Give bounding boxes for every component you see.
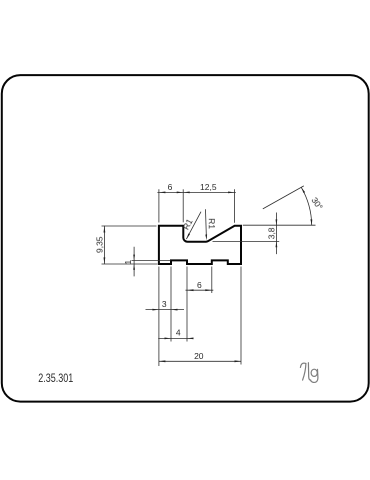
svg-text:9,35: 9,35 — [95, 236, 105, 253]
radius leader R1 slant base — [205, 209, 217, 240]
dimension 4 bottom — [158, 327, 193, 339]
dimension 6 bottom — [186, 267, 214, 342]
svg-text:4: 4 — [176, 327, 181, 337]
svg-text:6: 6 — [197, 280, 202, 290]
profile outline — [159, 226, 241, 264]
svg-text:2.35.301: 2.35.301 — [38, 372, 73, 386]
svg-text:20: 20 — [194, 351, 204, 361]
svg-text:6: 6 — [168, 182, 173, 192]
svg-text:1: 1 — [123, 260, 133, 265]
page mark 7lg — [300, 363, 318, 383]
dimension 3 bottom — [146, 267, 185, 342]
dimension 6 top — [157, 182, 183, 222]
dimension 1 bottom-left — [123, 247, 171, 277]
dimension 12,5 top — [183, 182, 236, 223]
svg-text:3: 3 — [162, 299, 167, 309]
svg-text:12,5: 12,5 — [200, 182, 217, 192]
dimension 3,8 right — [213, 213, 316, 255]
radius leader R1 groove left — [181, 212, 201, 239]
dimension 30 degrees — [263, 186, 325, 225]
svg-text:R1: R1 — [207, 218, 217, 229]
svg-text:3,8: 3,8 — [266, 227, 276, 239]
dimension 9,35 left — [95, 226, 158, 264]
dimension 20 bottom — [159, 267, 241, 367]
catalog number 2.35.301 — [38, 372, 73, 386]
